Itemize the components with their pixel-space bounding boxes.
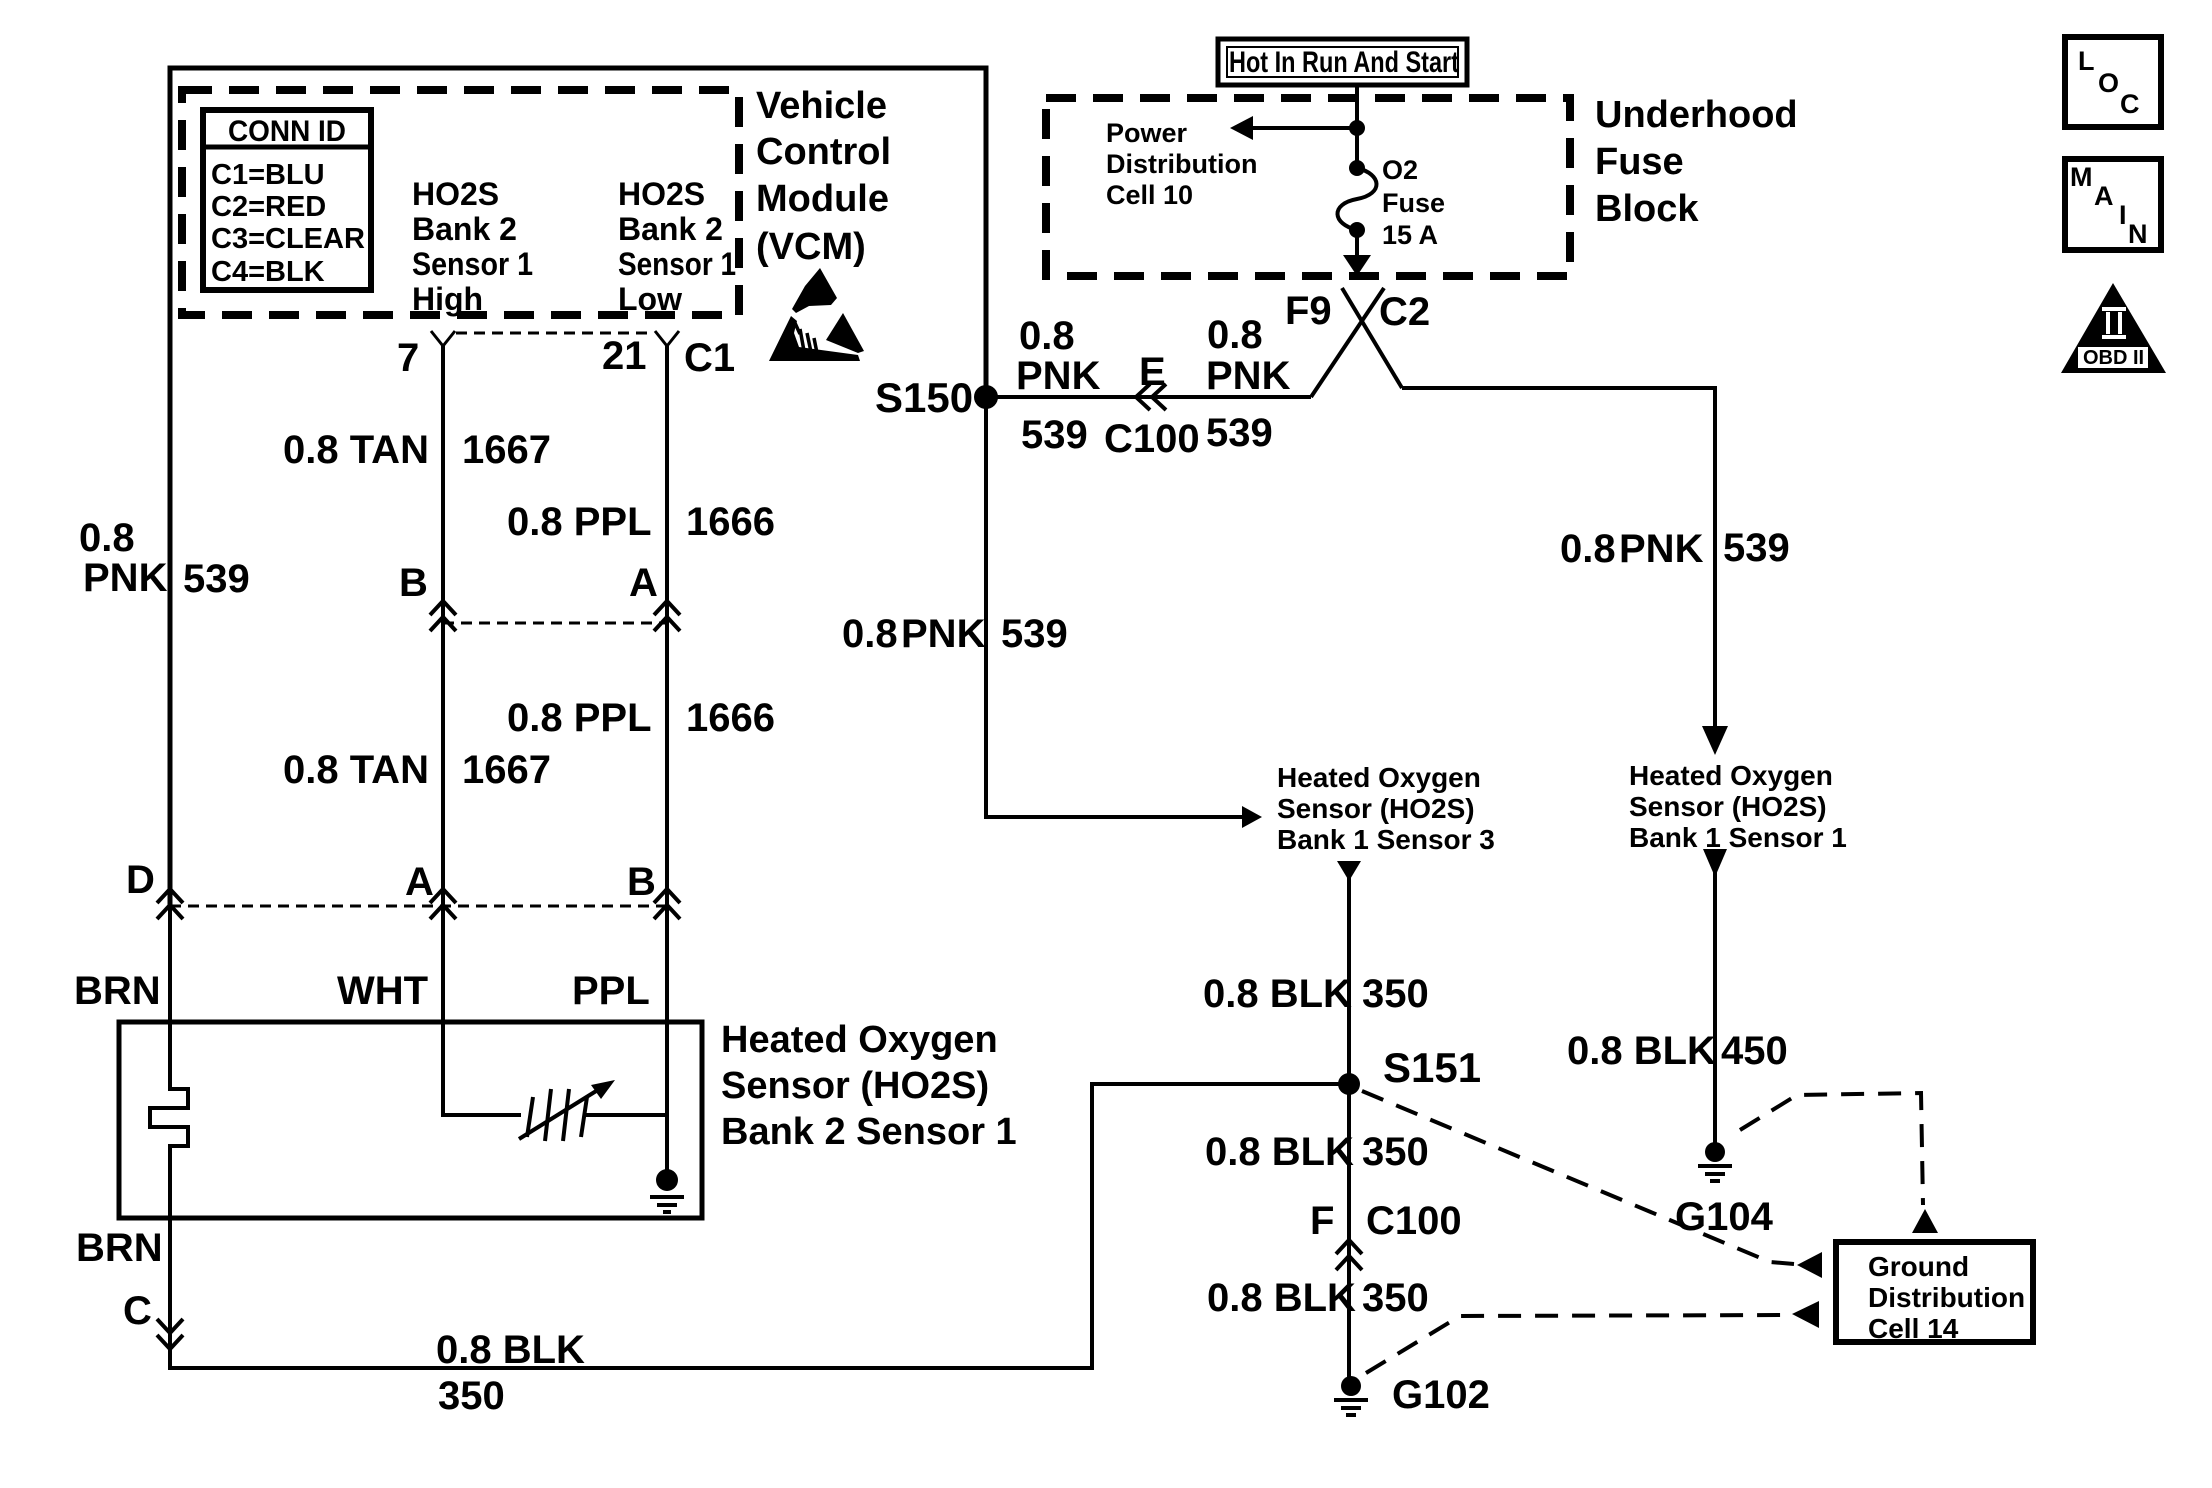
svg-text:C2=RED: C2=RED: [211, 191, 326, 223]
svg-text:Block: Block: [1595, 188, 1699, 230]
sensor internal ground dot: [656, 1169, 678, 1191]
svg-text:PPL: PPL: [572, 969, 650, 1013]
splice S151 junction dot: [1338, 1073, 1360, 1095]
svg-text:539: 539: [1206, 411, 1273, 455]
wire: power distribution arrow line: [1240, 126, 1357, 130]
svg-text:C3=CLEAR: C3=CLEAR: [211, 223, 365, 255]
svg-text:HO2S: HO2S: [618, 176, 705, 212]
dashed reference: G102 to Ground Distribution Cell 14: [1366, 1315, 1788, 1373]
svg-text:1666: 1666: [686, 500, 775, 544]
svg-text:(VCM): (VCM): [756, 226, 866, 268]
svg-text:Heated Oxygen: Heated Oxygen: [721, 1019, 998, 1061]
svg-text:C1=BLU: C1=BLU: [211, 159, 325, 191]
arrowhead to HO2S Bank 1 Sensor 3: [1242, 806, 1262, 828]
svg-text:F9: F9: [1285, 289, 1332, 333]
wire: variable resistor right lead: [585, 1113, 667, 1117]
svg-text:CONN ID: CONN ID: [228, 115, 346, 148]
pin function label: HO2S Bank 2 Sensor 1 Low: [618, 176, 736, 317]
svg-text:Control: Control: [756, 131, 891, 173]
wire: fuse output: [1355, 230, 1359, 257]
svg-text:D: D: [126, 858, 155, 902]
wire: battery feed into fuse block: [1355, 84, 1359, 165]
svg-text:Distribution: Distribution: [1868, 1282, 2025, 1313]
svg-text:0.8 BLK: 0.8 BLK: [1207, 1276, 1356, 1320]
svg-text:C: C: [123, 1289, 152, 1333]
component lead triangle HO2S Bank 1 Sensor 3: [1337, 861, 1361, 881]
fuse F9 O2 15A element: [1337, 160, 1376, 238]
svg-text:G102: G102: [1392, 1373, 1490, 1417]
svg-text:F: F: [1310, 1199, 1334, 1243]
svg-text:Cell 14: Cell 14: [1868, 1313, 1959, 1344]
svg-text:Ground: Ground: [1868, 1251, 1969, 1282]
wire: 0.8 PNK 539 to HO2S Bank 1 Sensor 1: [1402, 388, 1715, 728]
ground G104 dot: [1705, 1142, 1725, 1162]
connector chevrons pin A lower (x443): [430, 889, 456, 919]
svg-text:15 A: 15 A: [1382, 220, 1438, 250]
MAIN symbol box: [2065, 159, 2161, 250]
svg-text:C100: C100: [1104, 417, 1200, 461]
Ground Distribution Cell 14 box: [1836, 1242, 2033, 1342]
svg-text:S150: S150: [875, 374, 973, 421]
Underhood Fuse Block dashed box: [1046, 98, 1570, 276]
connector chevrons pin C down (x170): [157, 1319, 183, 1349]
ESD sensitivity symbol: [769, 268, 864, 361]
VCM dashed module box: [182, 90, 739, 315]
dashed reference: S151 to Ground Distribution Cell 14: [1362, 1091, 1794, 1264]
svg-text:Module: Module: [756, 178, 889, 220]
component lead triangle HO2S Bank 1 Sensor 1: [1703, 849, 1727, 877]
svg-text:1667: 1667: [462, 428, 551, 472]
svg-text:Heated Oxygen: Heated Oxygen: [1277, 762, 1481, 793]
connector chevrons pin B lower (x667): [654, 889, 680, 919]
splice S150 junction dot: [974, 385, 998, 409]
LOC symbol box: [2065, 37, 2161, 127]
wire: 0.8 PNK 539 from S150 to connector C100 pin E and fuse fork: [986, 395, 1311, 399]
svg-text:PNK: PNK: [1619, 527, 1704, 571]
svg-text:Vehicle: Vehicle: [756, 85, 887, 127]
svg-text:0.8 TAN: 0.8 TAN: [283, 748, 429, 792]
svg-text:0.8: 0.8: [1560, 527, 1616, 571]
wire: 0.8 PNK 539 feed loop from pin D up over to S150: [170, 68, 986, 908]
svg-text:O2: O2: [1382, 155, 1418, 185]
arrowhead into GD box lower left: [1792, 1301, 1819, 1328]
OBD II symbol triangle: [2061, 283, 2166, 373]
wire: 0.8 BLK 450 from HO2S Bank 1 Sensor 1 to G104: [1713, 872, 1717, 1146]
svg-text:M: M: [2070, 162, 2093, 192]
wire: fuse output fork crossing X (F9/C2 connector) left branch: [1311, 288, 1384, 397]
svg-text:BRN: BRN: [74, 969, 161, 1013]
svg-text:OBD II: OBD II: [2083, 347, 2144, 369]
svg-text:Power: Power: [1106, 118, 1188, 148]
connector chevrons pin B (x443): [430, 601, 456, 631]
svg-text:Hot In Run And Start: Hot In Run And Start: [1229, 46, 1459, 79]
pin function label: HO2S Bank 2 Sensor 1 High: [412, 176, 533, 317]
svg-text:Low: Low: [618, 281, 682, 317]
svg-text:HO2S: HO2S: [412, 176, 499, 212]
dashed in-line connector at pins D/A/B: [170, 905, 667, 908]
svg-text:539: 539: [1021, 413, 1088, 457]
ground G104 symbol: [1698, 1166, 1732, 1181]
svg-text:Underhood: Underhood: [1595, 94, 1798, 136]
svg-text:Bank 1 Sensor 3: Bank 1 Sensor 3: [1277, 824, 1495, 855]
ground G102 symbol: [1334, 1400, 1368, 1415]
svg-text:Sensor 1: Sensor 1: [618, 246, 736, 282]
svg-text:Bank 2: Bank 2: [412, 211, 517, 247]
svg-text:PNK: PNK: [1016, 354, 1101, 398]
label: Underhood Fuse Block: [1595, 94, 1798, 230]
svg-text:0.8: 0.8: [842, 612, 898, 656]
fuse value label: O2 Fuse 15 A: [1382, 155, 1445, 250]
svg-text:539: 539: [1723, 526, 1790, 570]
module label: Vehicle Control Module (VCM): [756, 85, 891, 268]
svg-text:539: 539: [183, 557, 250, 601]
sensor internal ground symbol: [650, 1197, 684, 1212]
svg-text:0.8 PPL: 0.8 PPL: [507, 696, 652, 740]
svg-text:WHT: WHT: [337, 969, 428, 1013]
CONN ID table box: [203, 110, 371, 290]
svg-text:0.8 BLK: 0.8 BLK: [1567, 1029, 1716, 1073]
wire: BRN pin C path with heater jog, bottom 0.8 BLK 350 run to S151: [150, 904, 1342, 1368]
connector chevrons pin A (x667): [654, 601, 680, 631]
dashed connector line between pins 7 and 21: [456, 332, 654, 335]
pin 21 connector fork: [655, 331, 679, 346]
arrowhead to Power Distribution Cell 10: [1230, 116, 1253, 140]
svg-text:PNK: PNK: [901, 612, 986, 656]
svg-text:S151: S151: [1383, 1044, 1481, 1091]
svg-text:High: High: [412, 281, 483, 317]
connector C100 pin E chevrons: [1136, 384, 1166, 410]
svg-text:A: A: [405, 860, 434, 904]
component label: Heated Oxygen Sensor (HO2S) Bank 2 Sensor 1: [721, 1019, 1017, 1153]
ground G102 dot: [1341, 1376, 1361, 1396]
svg-text:Bank 2: Bank 2: [618, 211, 723, 247]
svg-text:350: 350: [1362, 972, 1429, 1016]
svg-text:350: 350: [438, 1374, 505, 1418]
svg-text:Sensor (HO2S): Sensor (HO2S): [1629, 791, 1827, 822]
arrowhead into GD box upper left: [1797, 1252, 1822, 1278]
svg-text:Bank 2 Sensor 1: Bank 2 Sensor 1: [721, 1111, 1017, 1153]
wire: 0.8 TAN 1667 from VCM pin 7 down to sensor pin A (WHT): [443, 345, 521, 1115]
svg-text:350: 350: [1362, 1276, 1429, 1320]
svg-text:0.8 BLK: 0.8 BLK: [1205, 1130, 1354, 1174]
wire: 0.8 PPL 1666 from VCM pin 21 down to sensor pin B (PPL) and internal ground: [665, 345, 669, 1172]
svg-text:O: O: [2098, 68, 2119, 98]
svg-text:B: B: [627, 860, 656, 904]
svg-text:I: I: [2119, 200, 2127, 230]
svg-text:A: A: [629, 561, 658, 605]
svg-text:Distribution: Distribution: [1106, 149, 1257, 179]
arrowhead into GD box top: [1912, 1209, 1938, 1233]
svg-text:E: E: [1139, 350, 1166, 394]
svg-text:7: 7: [397, 336, 419, 380]
svg-text:539: 539: [1001, 612, 1068, 656]
svg-text:0.8: 0.8: [1207, 313, 1263, 357]
arrowhead fuse output down: [1343, 255, 1371, 276]
wire: fuse output fork crossing X right branch: [1342, 288, 1402, 388]
component label: Heated Oxygen Sensor (HO2S) Bank 1 Sensor 1: [1629, 760, 1847, 853]
svg-text:A: A: [2094, 181, 2114, 211]
svg-text:C4=BLK: C4=BLK: [211, 256, 325, 288]
connector chevrons pin D (x170): [157, 889, 183, 919]
svg-text:G104: G104: [1675, 1195, 1774, 1239]
CONN ID table text: [211, 115, 365, 288]
svg-text:0.8 BLK: 0.8 BLK: [1203, 972, 1352, 1016]
svg-text:PNK: PNK: [1206, 354, 1291, 398]
svg-text:C100: C100: [1366, 1199, 1462, 1243]
CONN ID table header line: [203, 145, 371, 150]
svg-text:Fuse: Fuse: [1595, 141, 1684, 183]
wire: 0.8 PNK 539 from S150 to HO2S Bank 1 Sensor 3: [986, 397, 1245, 817]
svg-text:0.8: 0.8: [79, 516, 135, 560]
connector C100 pin F chevrons: [1336, 1240, 1362, 1270]
wire: 0.8 BLK 350 from HO2S Bank 1 Sensor 3 through S151 to G102: [1347, 876, 1351, 1380]
svg-text:0.8: 0.8: [1019, 314, 1075, 358]
junction dot power distribution tap: [1349, 120, 1365, 136]
svg-text:21: 21: [602, 334, 647, 378]
svg-text:B: B: [399, 561, 428, 605]
svg-text:Heated Oxygen: Heated Oxygen: [1629, 760, 1833, 791]
svg-text:Bank 1 Sensor 1: Bank 1 Sensor 1: [1629, 822, 1847, 853]
component label: Heated Oxygen Sensor (HO2S) Bank 1 Sensor 3: [1277, 762, 1495, 855]
svg-text:Sensor (HO2S): Sensor (HO2S): [1277, 793, 1475, 824]
svg-text:PNK: PNK: [83, 556, 168, 600]
svg-text:1667: 1667: [462, 748, 551, 792]
svg-text:C2: C2: [1379, 290, 1430, 334]
svg-text:1666: 1666: [686, 696, 775, 740]
svg-text:N: N: [2128, 219, 2148, 249]
svg-text:350: 350: [1362, 1130, 1429, 1174]
svg-text:Sensor 1: Sensor 1: [412, 246, 533, 282]
arrowhead down to HO2S Bank 1 Sensor 1: [1702, 726, 1728, 755]
Hot In Run And Start double box: [1218, 39, 1467, 85]
svg-text:Sensor (HO2S): Sensor (HO2S): [721, 1065, 989, 1107]
reference: Power Distribution Cell 10: [1106, 118, 1257, 210]
svg-text:0.8 BLK: 0.8 BLK: [436, 1328, 585, 1372]
variable resistor arrow line: [519, 1088, 601, 1139]
svg-text:Fuse: Fuse: [1382, 188, 1445, 218]
svg-text:L: L: [2078, 46, 2095, 76]
svg-text:Cell 10: Cell 10: [1106, 180, 1193, 210]
svg-text:0.8 PPL: 0.8 PPL: [507, 500, 652, 544]
svg-text:450: 450: [1721, 1029, 1788, 1073]
pin 7 connector fork: [431, 331, 455, 346]
dashed reference: G104 to Ground Distribution Cell 14: [1740, 1093, 1923, 1205]
reference: Ground Distribution Cell 14: [1868, 1251, 2025, 1344]
variable resistor arrowhead: [591, 1080, 615, 1099]
svg-text:0.8 TAN: 0.8 TAN: [283, 428, 429, 472]
variable resistor hash bars: [527, 1089, 587, 1141]
svg-text:C: C: [2120, 89, 2140, 119]
svg-text:BRN: BRN: [76, 1226, 163, 1270]
svg-text:C1: C1: [684, 336, 735, 380]
component box: Heated Oxygen Sensor HO2S Bank 2 Sensor 1: [119, 1022, 702, 1218]
dashed in-line connector at pins B/A: [443, 622, 667, 625]
